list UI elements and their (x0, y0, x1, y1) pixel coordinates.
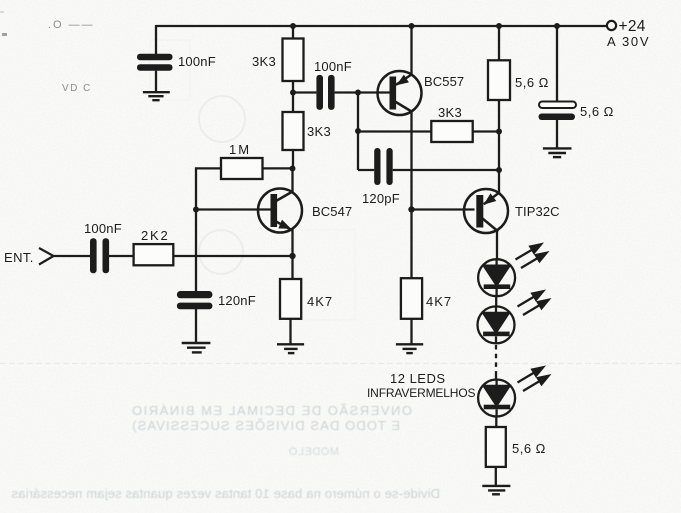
node D (Q1 base) (193, 207, 199, 213)
wire: node I down to R8 (410, 210, 412, 279)
wire: Q3 collector down to LED1 (496, 230, 498, 260)
svg-text:Divide-se o número na base 10: Divide-se o número na base 10 tantas vez… (11, 486, 440, 501)
node I (Q3 base) (408, 206, 414, 212)
svg-text:5,6 Ω: 5,6 Ω (580, 104, 614, 119)
LED D2 (478, 306, 515, 343)
node: rail / R7 (496, 23, 502, 29)
svg-text:INFRAVERMELHOS: INFRAVERMELHOS (367, 386, 476, 400)
svg-text:12 LEDS: 12 LEDS (390, 371, 446, 386)
LED D2 emission arrows (518, 290, 552, 316)
wire: C2 to node B (335, 91, 358, 93)
wire: rail to R7 (498, 26, 500, 60)
LED D3 emission arrows (518, 366, 552, 392)
svg-text:ONVERSÃO DE DECIMAL EM BINÁRIO: ONVERSÃO DE DECIMAL EM BINÁRIO (131, 403, 412, 418)
LED D1 emission arrows (516, 243, 550, 269)
svg-text:5,6 Ω: 5,6 Ω (512, 441, 546, 456)
node: rail / Q2 emitter (409, 23, 415, 29)
wire: R9 to ground (495, 467, 497, 485)
node E (Q1 emitter/R5) (289, 253, 295, 259)
svg-text:ENT.: ENT. (4, 250, 34, 265)
transistor Q3 TIP32C (464, 189, 508, 233)
svg-text:A 30V: A 30V (607, 34, 650, 49)
wire: R5 to ground (289, 319, 291, 344)
wire: R7 down to Q3 emitter (498, 100, 500, 194)
wire: C5 to node H (393, 169, 499, 171)
svg-text:1M: 1M (229, 142, 251, 157)
node C (R2/R3/Q1 collector) (290, 166, 296, 172)
input arrow (39, 248, 54, 265)
svg-text:BC557: BC557 (424, 74, 464, 89)
wire: R2 top lead (292, 93, 294, 113)
wire: node D to Q1 base (196, 208, 271, 210)
svg-text:E TODO DAS DIVISÕES SUCESSIVAS: E TODO DAS DIVISÕES SUCESSIVAS) (131, 418, 400, 433)
node: rail / R1 junction (290, 23, 296, 29)
wire: R4 to node E (173, 255, 292, 257)
wire: rail to R1 (292, 26, 294, 39)
resistor R3 1M (221, 158, 263, 179)
svg-text:.O ——: .O —— (48, 19, 95, 31)
wire: R1 to node A (292, 81, 294, 93)
wire: node B to Q2 base (358, 91, 390, 93)
wire: node I to Q3 base (412, 208, 475, 210)
wire: LED1 to LED2 (495, 296, 497, 306)
wire: node B down (357, 93, 359, 171)
resistor R7 5,6 ohm (488, 60, 510, 100)
wire: node B corner to C5 (358, 169, 374, 171)
LED D1 (478, 259, 515, 296)
svg-text:120nF: 120nF (218, 293, 256, 308)
svg-text:2K2: 2K2 (141, 228, 170, 243)
svg-text:4K7: 4K7 (426, 294, 452, 309)
ground (under R8) (396, 344, 423, 353)
node A (R1/R2/C2) (290, 90, 296, 96)
node B (C2/Q2 base) (355, 90, 361, 96)
ground (under R9) (482, 486, 510, 494)
capacitor C1 100nF (137, 54, 173, 92)
node G (496, 129, 502, 135)
wire: dashed (omitted LEDs) (495, 345, 497, 380)
wire: R3 right to node C (263, 167, 293, 169)
svg-text:3K3: 3K3 (252, 54, 276, 69)
capacitor C2 100nF (316, 75, 334, 110)
svg-text:+24: +24 (619, 18, 646, 35)
svg-text:VD C: VD C (62, 83, 92, 94)
resistor R4 2K2 (134, 244, 174, 265)
wire: node E to R5 (291, 256, 293, 279)
wire: R6 to node G (473, 130, 499, 132)
node H (496, 167, 502, 173)
capacitor C4 120nF (177, 291, 213, 342)
ground (under C1) (143, 92, 170, 100)
resistor R8 4K7 (401, 278, 422, 319)
ground (under R5) (277, 344, 304, 353)
LED D3 (478, 380, 515, 417)
ground (under C6) (543, 148, 572, 157)
resistor R5 4K7 (280, 279, 301, 319)
wire: node F to R6 (358, 130, 431, 132)
wire: Q1 emitter down to node E (291, 229, 293, 257)
wire: rail corner to C1 (155, 25, 157, 55)
wire: LED3 to R9 (495, 417, 497, 428)
node F (3K3/node B row) (355, 128, 361, 134)
resistor R1 3K3 (283, 39, 304, 82)
svg-text:100nF: 100nF (314, 59, 352, 74)
transistor Q1 BC547 (258, 189, 302, 233)
ground (under C4) (182, 343, 211, 352)
svg-text:TIP32C: TIP32C (515, 204, 560, 219)
wire: R2 to node C (292, 150, 294, 169)
resistor R9 5,6 ohm (486, 427, 506, 467)
node: rail / C6 (554, 23, 560, 29)
resistor R6 3K3 (431, 121, 472, 142)
svg-text:5,6 Ω: 5,6 Ω (515, 75, 549, 90)
wire: rail to C6 (556, 26, 558, 102)
wire: node A to C2 (293, 91, 316, 93)
svg-text:MODELO: MODELO (288, 446, 339, 458)
resistor R2 3K3 (283, 112, 304, 150)
svg-text:BC547: BC547 (312, 204, 352, 219)
wire: +V rail (156, 25, 607, 27)
capacitor C5 120pF (374, 148, 392, 185)
terminal +24V (607, 21, 616, 30)
wire: R3 left + down to C4 (196, 168, 221, 291)
wire: C3 to R4 (109, 255, 134, 257)
wire: Q1 collector up to node C (291, 169, 293, 193)
svg-text:4K7: 4K7 (307, 294, 333, 309)
wire: input to C3 (54, 255, 91, 257)
svg-text:100nF: 100nF (178, 54, 216, 69)
capacitor C6 5,6 ohm (electrolytic) (539, 102, 577, 148)
transistor Q2 BC557 (378, 71, 422, 115)
svg-text:100nF: 100nF (84, 221, 122, 236)
svg-text:3K3: 3K3 (307, 124, 331, 139)
svg-text:3K3: 3K3 (438, 105, 462, 120)
svg-text:120pF: 120pF (362, 191, 400, 206)
wire: Q2 collector down (410, 111, 412, 210)
wire: rail to Q2 emitter (410, 26, 412, 75)
capacitor C3 100nF (90, 238, 109, 273)
wire: R8 to ground (410, 319, 412, 344)
